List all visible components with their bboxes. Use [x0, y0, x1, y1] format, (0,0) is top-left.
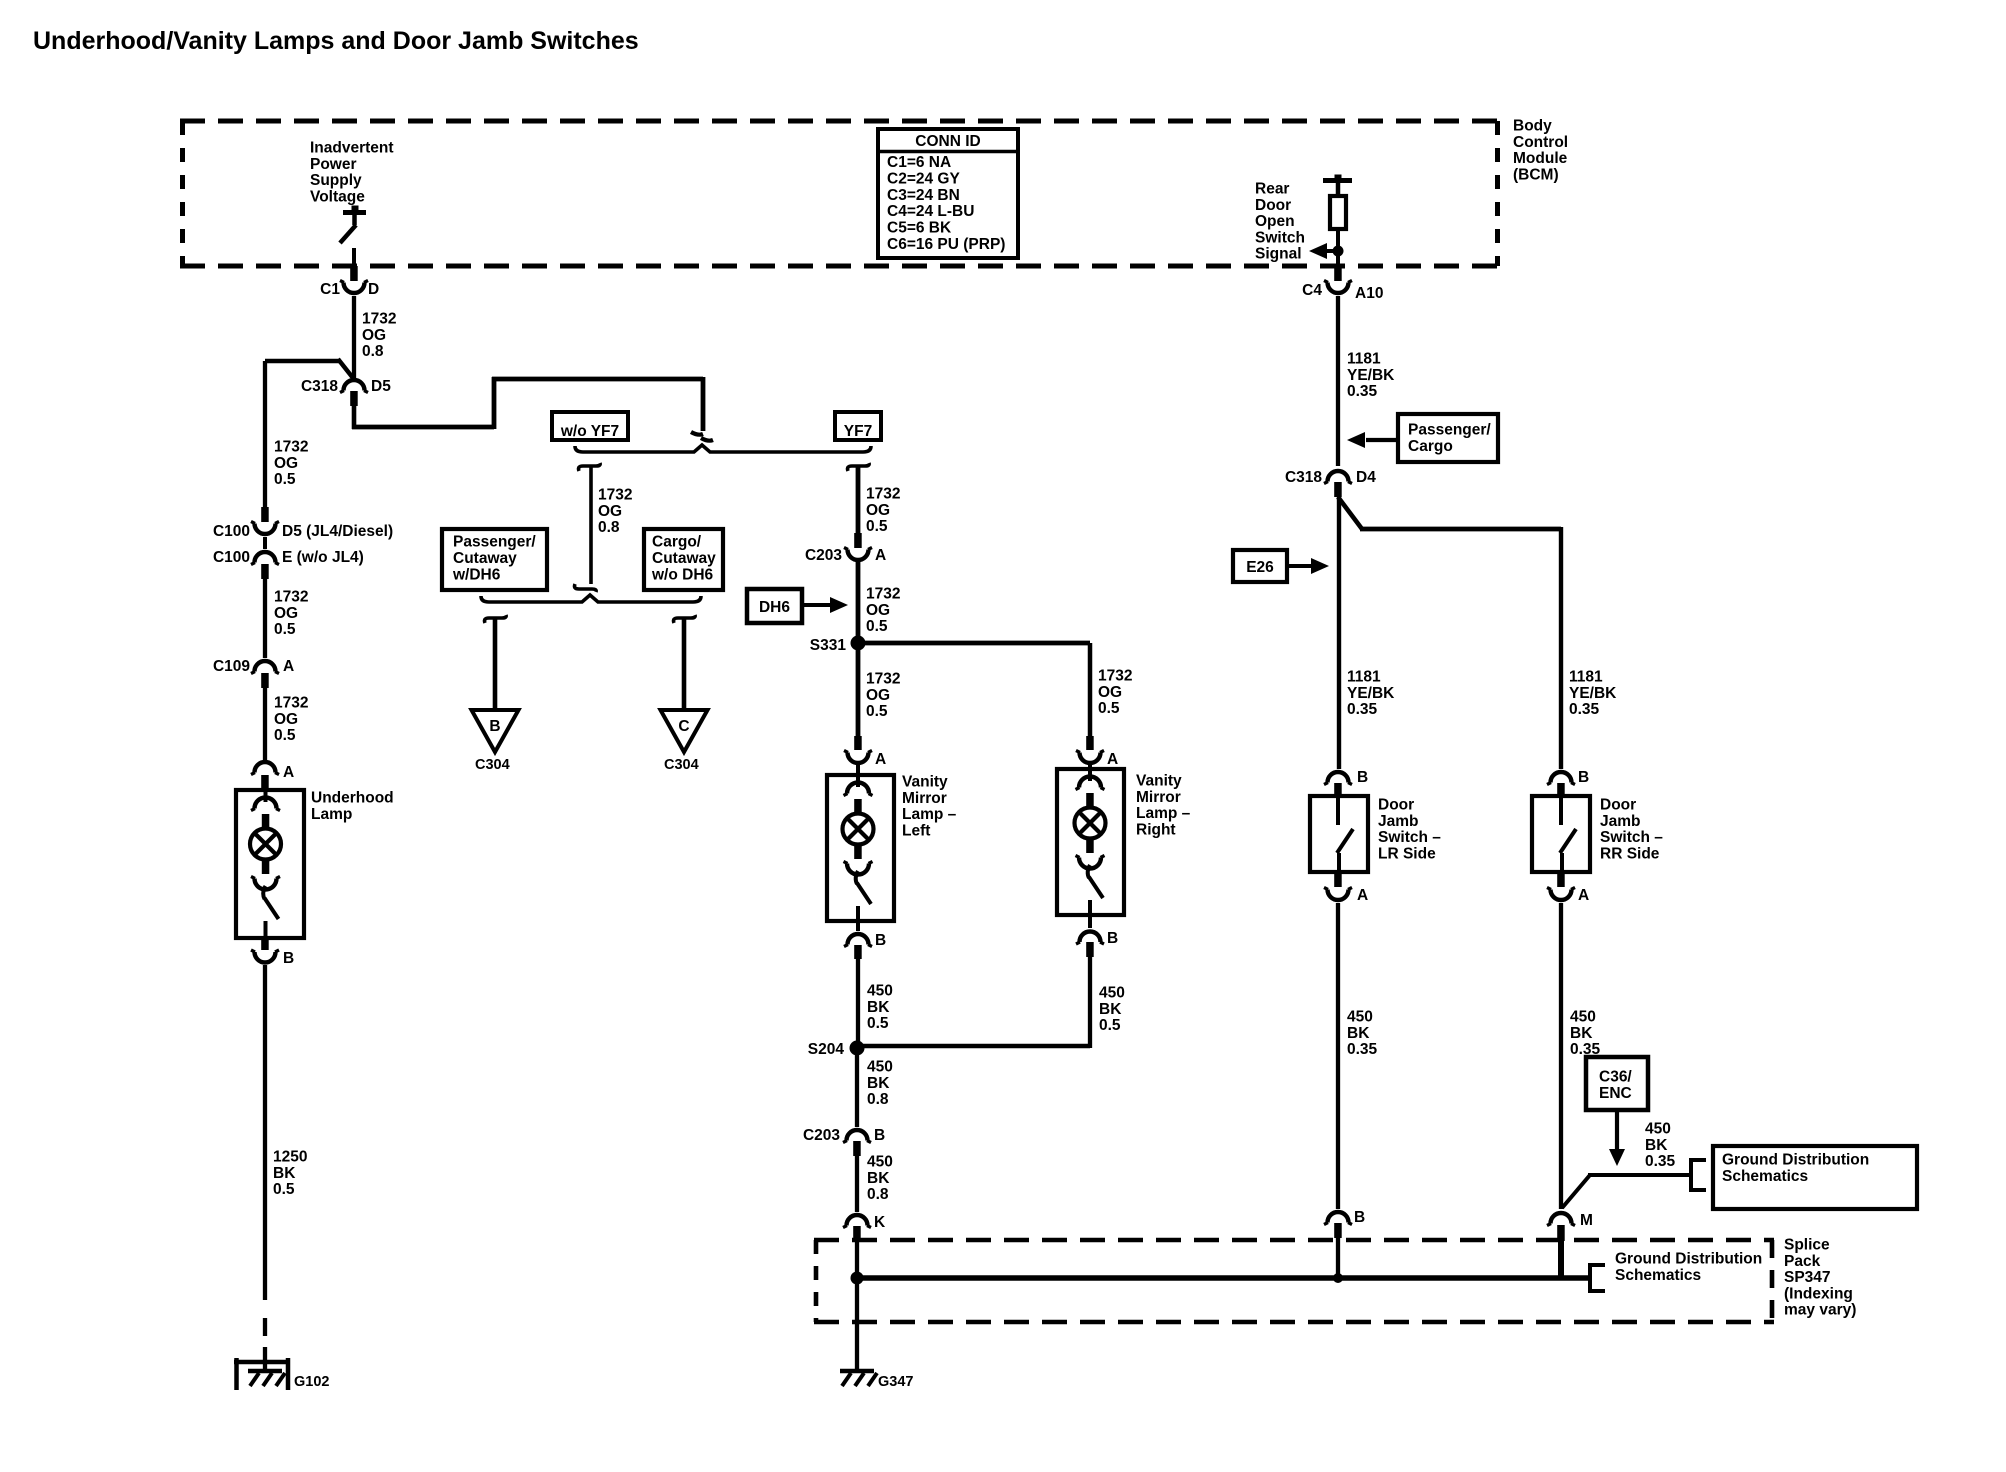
right vanity lamp label	[1136, 773, 1191, 839]
wire label 1732 OG 0.5 (left vanity)	[866, 671, 900, 721]
svg-text:E26: E26	[1246, 559, 1274, 576]
left vanity lamp label	[902, 774, 957, 840]
svg-text:Jamb: Jamb	[1600, 813, 1641, 830]
cutaway options brace	[481, 595, 701, 602]
wire to C304 triangle C	[674, 615, 696, 710]
svg-text:Door: Door	[1255, 197, 1291, 214]
svg-text:Rear: Rear	[1255, 181, 1289, 198]
svg-text:(BCM): (BCM)	[1513, 166, 1559, 183]
svg-text:C203: C203	[803, 1127, 840, 1144]
wire C203-A to S331	[856, 562, 861, 640]
svg-text:SP347: SP347	[1784, 1269, 1831, 1286]
C36/ENC arrow	[1609, 1110, 1625, 1166]
triangle connector B	[472, 710, 519, 752]
svg-text:C6=16 PU (PRP): C6=16 PU (PRP)	[887, 236, 1005, 253]
connector B of right vanity lamp	[1076, 915, 1118, 957]
Cargo/Cutaway w/o DH6 option box	[644, 529, 723, 590]
triangle connector C	[661, 710, 708, 752]
svg-text:0.5: 0.5	[273, 1181, 295, 1198]
wire label 1732 OG 0.8 (w/o YF7)	[598, 487, 632, 537]
svg-text:B: B	[283, 950, 294, 967]
wire C318-D5 jog to options brace	[352, 377, 703, 431]
left vanity lamp	[827, 765, 894, 921]
svg-text:1732: 1732	[598, 487, 632, 504]
svg-text:Underhood/Vanity Lamps and Doo: Underhood/Vanity Lamps and Door Jamb Swi…	[33, 27, 639, 55]
wire label 450 BK 0.35 (C36)	[1645, 1121, 1676, 1171]
svg-text:YE/BK: YE/BK	[1569, 685, 1617, 702]
svg-text:A10: A10	[1355, 285, 1383, 302]
svg-text:OG: OG	[1098, 684, 1122, 701]
connector A of LR door jamb switch	[1324, 872, 1368, 904]
wire label 450 BK 0.5 (right)	[1099, 985, 1125, 1035]
wire label 1732 OG 0.5 (YF7)	[866, 486, 900, 536]
wire label 1732 OG 0.5 (above S331)	[866, 586, 900, 636]
svg-text:1250: 1250	[273, 1149, 307, 1166]
svg-text:1732: 1732	[274, 589, 308, 606]
splice pack label	[1784, 1237, 1856, 1319]
connector B of underhood lamp	[251, 938, 294, 967]
svg-text:S204: S204	[808, 1041, 845, 1058]
ground G102	[234, 1358, 329, 1390]
svg-text:0.35: 0.35	[1347, 1041, 1378, 1058]
wire label 1181 YE/BK 0.35 (RR)	[1569, 669, 1617, 719]
svg-text:w/o YF7: w/o YF7	[560, 423, 619, 440]
svg-text:A: A	[875, 547, 886, 564]
svg-text:0.5: 0.5	[274, 621, 296, 638]
svg-text:Passenger/: Passenger/	[1408, 422, 1491, 439]
svg-text:450: 450	[1099, 985, 1125, 1002]
wire C109 to underhood lamp	[263, 688, 267, 760]
ground bus SP347	[857, 1275, 1588, 1280]
svg-text:1732: 1732	[362, 311, 396, 328]
svg-text:0.5: 0.5	[866, 618, 888, 635]
svg-text:0.8: 0.8	[867, 1186, 889, 1203]
svg-text:YF7: YF7	[844, 423, 872, 440]
svg-text:Mirror: Mirror	[1136, 789, 1181, 806]
connector C318 pin D5	[301, 378, 391, 406]
wire left vanity B to S204	[856, 959, 860, 1046]
Passenger/Cargo tag box	[1398, 414, 1498, 462]
svg-text:Signal: Signal	[1255, 246, 1302, 263]
svg-text:0.5: 0.5	[867, 1015, 889, 1032]
options brace	[575, 445, 871, 452]
svg-text:BK: BK	[867, 1075, 890, 1092]
wire label 1732 OG 0.5 (right vanity)	[1098, 668, 1132, 718]
svg-text:D4: D4	[1356, 469, 1376, 486]
svg-text:Voltage: Voltage	[310, 188, 365, 205]
svg-text:Module: Module	[1513, 150, 1568, 167]
svg-text:0.8: 0.8	[867, 1091, 889, 1108]
junction dot B-bus	[1333, 1273, 1343, 1283]
svg-text:1732: 1732	[274, 695, 308, 712]
svg-text:A: A	[283, 764, 294, 781]
svg-text:1732: 1732	[866, 486, 900, 503]
DH6 arrow	[802, 597, 848, 613]
YF7 option box	[835, 412, 881, 440]
wire label 1732 OG 0.5 (left col lower)	[274, 695, 308, 745]
svg-text:(Indexing: (Indexing	[1784, 1285, 1853, 1302]
svg-text:0.5: 0.5	[1098, 700, 1120, 717]
svg-text:Control: Control	[1513, 134, 1568, 151]
E26 arrow	[1287, 558, 1329, 574]
CONN ID table	[878, 129, 1018, 258]
wire label 1181 YE/BK 0.35 (LR)	[1347, 669, 1395, 719]
svg-text:K: K	[874, 1214, 886, 1231]
label C304 (right)	[664, 757, 699, 773]
svg-text:Door: Door	[1600, 797, 1636, 814]
ground G347	[840, 1371, 913, 1390]
wire RR switch A to M	[1559, 903, 1563, 1209]
svg-text:Schematics: Schematics	[1615, 1267, 1701, 1284]
svg-text:A: A	[875, 751, 886, 768]
wire branch to left column	[265, 359, 353, 378]
svg-text:B: B	[489, 718, 500, 735]
inadvertent power supply voltage label	[310, 140, 394, 206]
power supply switch symbol	[340, 206, 366, 244]
svg-text:Right: Right	[1136, 821, 1176, 838]
rear door open switch signal label	[1255, 181, 1305, 263]
svg-text:BK: BK	[273, 1165, 296, 1182]
svg-text:Splice: Splice	[1784, 1237, 1830, 1254]
svg-text:BK: BK	[1570, 1025, 1593, 1042]
svg-text:0.35: 0.35	[1645, 1153, 1676, 1170]
wire C318-D4 branch to RR	[1338, 497, 1561, 769]
signal arrow (points left)	[1309, 243, 1338, 259]
svg-text:Cutaway: Cutaway	[652, 550, 716, 567]
svg-text:OG: OG	[274, 455, 298, 472]
Ground Distribution Schematics label (splice)	[1615, 1251, 1762, 1284]
svg-text:B: B	[875, 932, 886, 949]
door jamb switch LR	[1310, 796, 1368, 872]
label C304 (left)	[475, 757, 510, 773]
svg-text:Mirror: Mirror	[902, 790, 947, 807]
BCM label	[1513, 118, 1568, 184]
svg-text:C3=24 BN: C3=24 BN	[887, 187, 960, 204]
svg-text:C5=6 BK: C5=6 BK	[887, 220, 952, 237]
svg-text:S331: S331	[810, 637, 847, 654]
svg-text:BK: BK	[1645, 1137, 1668, 1154]
wire resistor to C4	[1336, 229, 1340, 266]
svg-text:A: A	[283, 658, 294, 675]
wire label 450 BK 0.5 (left)	[867, 983, 893, 1033]
wire label 1181 YE/BK 0.35 (upper)	[1347, 351, 1395, 401]
svg-text:B: B	[1578, 769, 1589, 786]
svg-text:CONN ID: CONN ID	[915, 133, 980, 150]
wire S331 to right vanity lamp	[858, 643, 1090, 737]
svg-text:D5: D5	[371, 378, 391, 395]
wire right vanity B to S204	[857, 957, 1090, 1048]
svg-text:A: A	[1578, 887, 1589, 904]
connector C100 pin E (w/o JL4)	[213, 537, 364, 579]
wire C4 to C318-D4	[1336, 296, 1340, 466]
wire label 1732 OG 0.5 (left col mid)	[274, 589, 308, 639]
svg-text:Cargo: Cargo	[1408, 438, 1453, 455]
svg-text:DH6: DH6	[759, 599, 790, 616]
svg-text:A: A	[1357, 887, 1368, 904]
svg-text:Passenger/: Passenger/	[453, 534, 536, 551]
svg-text:B: B	[874, 1127, 885, 1144]
ground distribution bracket (lower)	[1590, 1263, 1605, 1293]
door jamb switch RR label	[1600, 797, 1663, 863]
svg-text:G102: G102	[294, 1374, 329, 1390]
svg-text:w/DH6: w/DH6	[452, 567, 501, 584]
svg-text:Underhood: Underhood	[311, 790, 394, 807]
svg-text:A: A	[1107, 751, 1118, 768]
svg-text:0.5: 0.5	[866, 703, 888, 720]
connector M at splice pack	[1547, 1212, 1593, 1241]
connector C203 pin A	[805, 533, 886, 564]
connector A of right vanity lamp	[1076, 736, 1118, 768]
wire C1 to C318	[352, 296, 356, 380]
svg-text:Switch: Switch	[1255, 229, 1305, 246]
svg-text:450: 450	[867, 1154, 893, 1171]
svg-text:Ground Distribution: Ground Distribution	[1722, 1152, 1869, 1169]
svg-text:Inadvertent: Inadvertent	[310, 140, 394, 157]
wire break squiggle	[691, 432, 713, 441]
splice S204	[808, 1041, 865, 1059]
ground distribution bracket (upper)	[1691, 1158, 1706, 1192]
wire label 1732 OG 0.8	[362, 311, 396, 361]
svg-text:C1=6 NA: C1=6 NA	[887, 154, 951, 171]
wire underhood lamp B to G102	[263, 965, 267, 1371]
svg-text:OG: OG	[274, 605, 298, 622]
svg-text:Ground Distribution: Ground Distribution	[1615, 1251, 1762, 1268]
svg-text:C203: C203	[805, 547, 842, 564]
wire K into splice pack	[855, 1241, 859, 1278]
C36/ENC tag box	[1586, 1057, 1648, 1110]
underhood lamp	[236, 790, 304, 938]
wire M to ground distribution	[1562, 1175, 1691, 1208]
svg-text:OG: OG	[866, 687, 890, 704]
svg-text:C318: C318	[1285, 469, 1322, 486]
junction dot at signal arrow	[1333, 246, 1344, 257]
svg-text:B: B	[1107, 930, 1118, 947]
svg-text:0.5: 0.5	[1099, 1017, 1121, 1034]
svg-text:C304: C304	[664, 757, 699, 773]
svg-text:1732: 1732	[1098, 668, 1132, 685]
svg-text:D5 (JL4/Diesel): D5 (JL4/Diesel)	[282, 523, 393, 540]
svg-text:E (w/o JL4): E (w/o JL4)	[282, 549, 364, 566]
connector C203 pin B	[803, 1127, 885, 1156]
DH6 option box	[747, 589, 802, 623]
svg-text:C100: C100	[213, 523, 250, 540]
svg-text:OG: OG	[362, 327, 386, 344]
svg-text:Lamp –: Lamp –	[1136, 805, 1191, 822]
svg-text:Open: Open	[1255, 213, 1295, 230]
wire label 1732 OG 0.5 (left col upper)	[274, 439, 308, 489]
svg-text:OG: OG	[866, 502, 890, 519]
connector C100 pin D5 (JL4/Diesel)	[213, 507, 393, 540]
svg-text:C318: C318	[301, 378, 338, 395]
svg-text:YE/BK: YE/BK	[1347, 367, 1395, 384]
right vanity lamp	[1057, 765, 1124, 915]
wire label 450 BK 0.35 (RR)	[1570, 1009, 1601, 1059]
wire LR switch A to splice pack	[1336, 903, 1340, 1209]
wire C318-D4 down to LR	[1337, 497, 1341, 769]
svg-text:1181: 1181	[1569, 669, 1603, 686]
connector B of left vanity lamp	[844, 921, 886, 959]
svg-text:Lamp –: Lamp –	[902, 806, 957, 823]
svg-text:OG: OG	[274, 711, 298, 728]
wire label 450 BK 0.8 (below C203)	[867, 1154, 893, 1204]
title	[33, 27, 639, 55]
wire S331 down to left vanity lamp	[856, 643, 861, 737]
svg-text:C2=24 GY: C2=24 GY	[887, 170, 960, 187]
splice S331	[810, 636, 866, 655]
svg-text:BK: BK	[1347, 1025, 1370, 1042]
svg-text:Jamb: Jamb	[1378, 813, 1419, 830]
svg-text:C100: C100	[213, 549, 250, 566]
Ground Distribution Schematics box	[1713, 1146, 1917, 1209]
svg-text:C36/: C36/	[1599, 1069, 1632, 1086]
svg-text:1181: 1181	[1347, 669, 1381, 686]
resistor (BCM internal)	[1323, 175, 1352, 230]
svg-text:Supply: Supply	[310, 172, 362, 189]
w/o YF7 option box	[552, 412, 628, 440]
wire B to ground bus	[1336, 1238, 1340, 1278]
w/o YF7 branch wire	[575, 463, 601, 592]
svg-text:Schematics: Schematics	[1722, 1168, 1808, 1185]
svg-text:0.8: 0.8	[598, 519, 620, 536]
connector B of LR door jamb switch	[1324, 769, 1368, 796]
svg-text:Left: Left	[902, 822, 930, 839]
wire power switch to C1	[352, 248, 356, 266]
svg-text:0.5: 0.5	[274, 471, 296, 488]
svg-text:C4: C4	[1302, 282, 1322, 299]
svg-text:450: 450	[1347, 1009, 1373, 1026]
svg-text:Switch –: Switch –	[1378, 829, 1441, 846]
svg-text:450: 450	[1645, 1121, 1671, 1138]
E26 tag box	[1233, 550, 1287, 582]
svg-text:450: 450	[1570, 1009, 1596, 1026]
svg-text:YE/BK: YE/BK	[1347, 685, 1395, 702]
Passenger/Cargo arrow	[1347, 432, 1398, 448]
wire C100 to C109	[263, 579, 267, 658]
svg-text:w/o DH6: w/o DH6	[651, 567, 714, 584]
svg-text:BK: BK	[1099, 1001, 1122, 1018]
connector C318 pin D4	[1285, 469, 1376, 497]
wire left column down to C100	[263, 361, 267, 508]
svg-text:BK: BK	[867, 999, 890, 1016]
svg-text:1181: 1181	[1347, 351, 1381, 368]
Passenger/Cutaway w/DH6 option box	[442, 529, 547, 590]
svg-text:0.35: 0.35	[1347, 701, 1378, 718]
wire label 1250 BK 0.5	[273, 1149, 307, 1199]
junction dot K-bus	[851, 1272, 864, 1285]
connector A of underhood lamp	[251, 762, 294, 790]
svg-text:Switch –: Switch –	[1600, 829, 1663, 846]
svg-text:0.5: 0.5	[274, 727, 296, 744]
svg-text:Body: Body	[1513, 118, 1552, 135]
wire C203-B to K	[855, 1156, 859, 1212]
connector C1 pin D	[320, 266, 379, 298]
wire label 450 BK 0.8 (above C203)	[867, 1059, 893, 1109]
svg-text:Cargo/: Cargo/	[652, 534, 702, 551]
svg-text:ENC: ENC	[1599, 1085, 1632, 1102]
svg-text:M: M	[1580, 1212, 1593, 1229]
connector A of RR door jamb switch	[1547, 872, 1589, 904]
door jamb switch RR	[1532, 796, 1590, 872]
wire S204 to C203-B	[855, 1048, 859, 1127]
svg-text:C109: C109	[213, 658, 250, 675]
svg-text:0.8: 0.8	[362, 343, 384, 360]
svg-text:Cutaway: Cutaway	[453, 550, 517, 567]
svg-text:Vanity: Vanity	[902, 774, 948, 791]
svg-text:Vanity: Vanity	[1136, 773, 1182, 790]
wire label 450 BK 0.35 (LR)	[1347, 1009, 1378, 1059]
svg-text:450: 450	[867, 1059, 893, 1076]
svg-text:may vary): may vary)	[1784, 1302, 1856, 1319]
svg-text:0.35: 0.35	[1347, 383, 1378, 400]
connector B of RR door jamb switch	[1547, 769, 1589, 796]
svg-text:Lamp: Lamp	[311, 806, 352, 823]
svg-text:450: 450	[867, 983, 893, 1000]
connector K	[843, 1214, 886, 1241]
svg-text:0.5: 0.5	[866, 518, 888, 535]
svg-text:OG: OG	[598, 503, 622, 520]
connector B at splice pack (LR)	[1324, 1209, 1365, 1238]
svg-text:Pack: Pack	[1784, 1253, 1821, 1270]
connector C109 pin A	[213, 658, 294, 688]
svg-text:B: B	[1357, 769, 1368, 786]
svg-text:1732: 1732	[866, 586, 900, 603]
svg-text:D: D	[368, 281, 379, 298]
svg-text:LR Side: LR Side	[1378, 845, 1436, 862]
svg-text:C304: C304	[475, 757, 510, 773]
svg-text:C1: C1	[320, 281, 340, 298]
svg-text:OG: OG	[866, 602, 890, 619]
wire splice pack to G347	[855, 1278, 859, 1370]
door jamb switch LR label	[1378, 797, 1441, 863]
wire M to ground bus	[1558, 1240, 1564, 1279]
wire to C304 triangle B	[485, 615, 507, 710]
svg-text:RR Side: RR Side	[1600, 845, 1660, 862]
connector A of left vanity lamp	[844, 736, 886, 768]
svg-text:C4=24 L-BU: C4=24 L-BU	[887, 203, 974, 220]
svg-text:B: B	[1354, 1209, 1365, 1226]
svg-text:Power: Power	[310, 156, 357, 173]
svg-text:0.35: 0.35	[1569, 701, 1600, 718]
YF7 branch wire	[848, 463, 870, 534]
svg-text:1732: 1732	[866, 671, 900, 688]
svg-text:BK: BK	[867, 1170, 890, 1187]
Body Control Module (BCM) dashed box	[180, 121, 1500, 266]
svg-text:1732: 1732	[274, 439, 308, 456]
connector C4 pin A10	[1302, 266, 1383, 302]
svg-text:G347: G347	[878, 1374, 913, 1390]
svg-text:C: C	[678, 718, 689, 735]
splice pack SP347 dashed box	[814, 1240, 1774, 1322]
svg-text:Door: Door	[1378, 797, 1414, 814]
underhood lamp label	[311, 790, 394, 823]
